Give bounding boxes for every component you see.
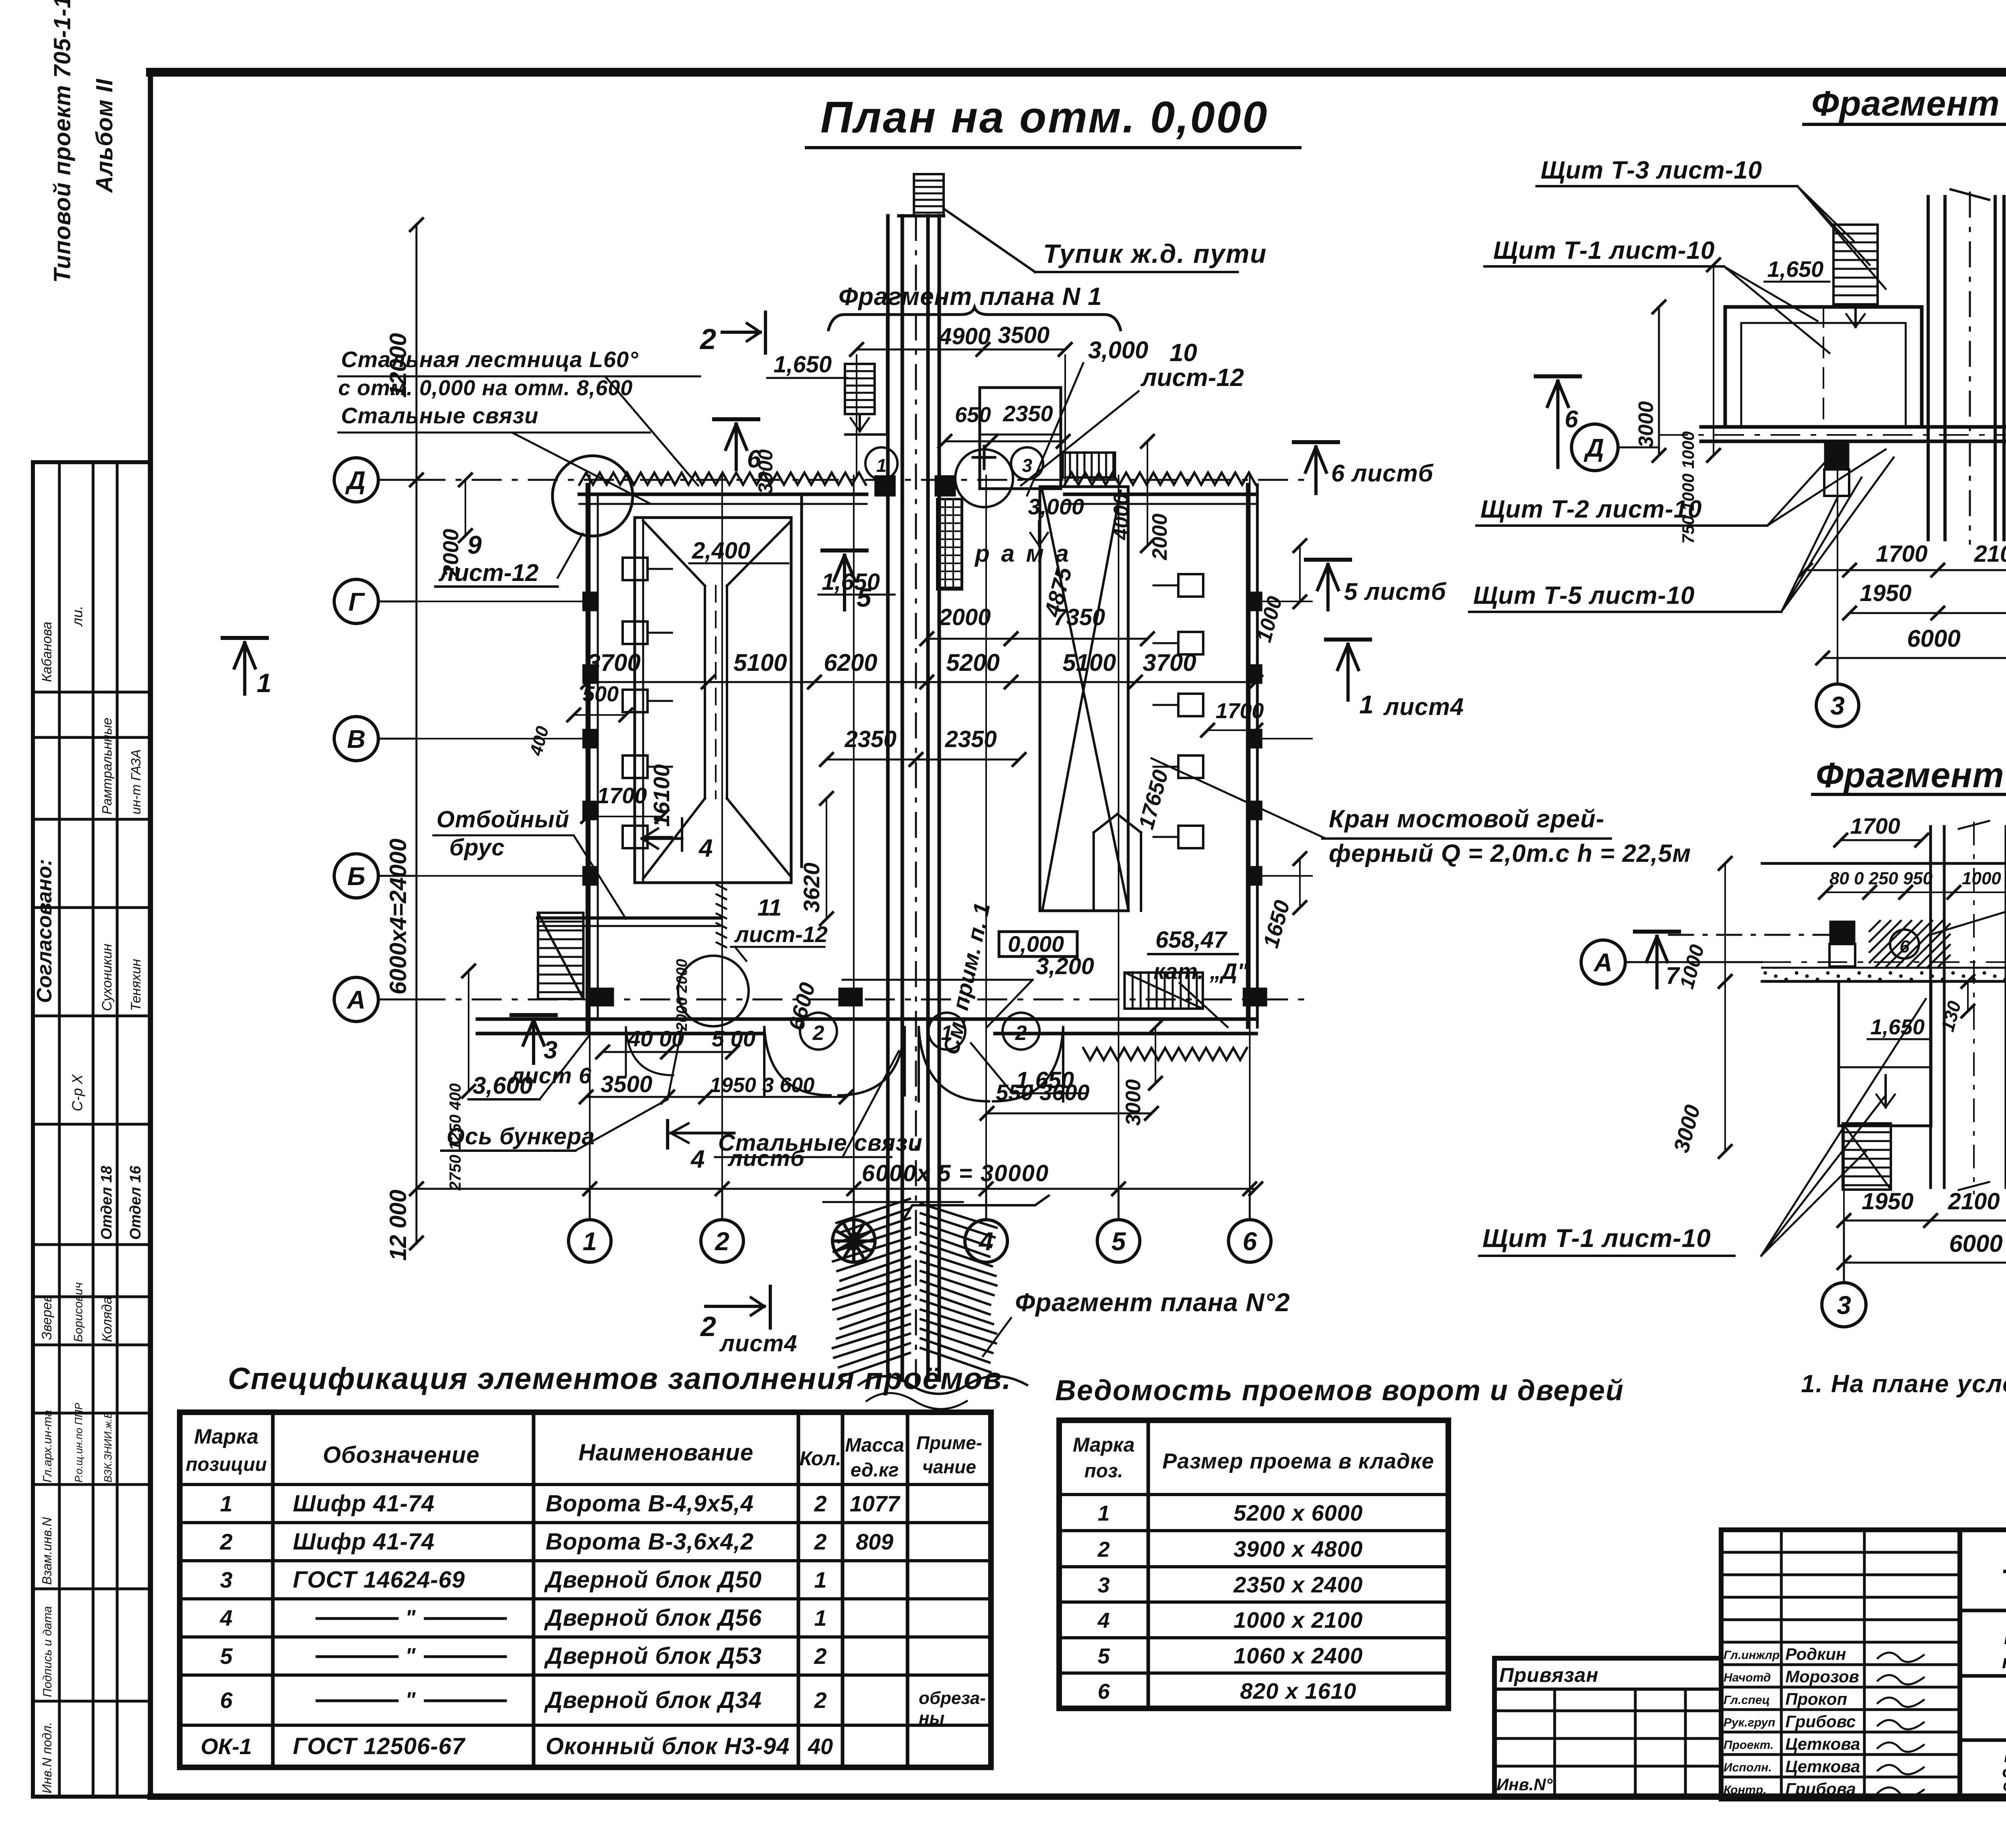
svg-text:2100: 2100 <box>1974 541 2006 567</box>
svg-text:Ворота В-4,9х5,4: Ворота В-4,9х5,4 <box>546 1491 754 1517</box>
svg-text:6000х 5 = 30000: 6000х 5 = 30000 <box>862 1160 1049 1186</box>
svg-text:Спецификация элементов запол: Спецификация элементов заполнения проёмо… <box>228 1362 1012 1396</box>
svg-text:А: А <box>346 985 365 1014</box>
svg-text:1. На плане условно показаны: 1. На плане условно показаны переносные … <box>1801 1370 2006 1398</box>
svg-text:Тупик ж.д. пути: Тупик ж.д. пути <box>1043 239 1267 268</box>
svg-text:Отдел 16: Отдел 16 <box>127 1166 144 1240</box>
svg-text:брус: брус <box>449 835 505 861</box>
svg-text:0,000: 0,000 <box>1008 931 1064 956</box>
svg-text:лист4: лист4 <box>1383 693 1464 720</box>
svg-text:Стальные связи: Стальные связи <box>341 403 539 428</box>
svg-text:2000: 2000 <box>938 604 991 630</box>
svg-text:400: 400 <box>526 724 553 758</box>
svg-text:3: 3 <box>1022 455 1032 476</box>
svg-text:ед.кг: ед.кг <box>851 1460 899 1481</box>
svg-text:Борисович: Борисович <box>72 1282 85 1342</box>
svg-text:6: 6 <box>1565 406 1578 433</box>
svg-text:Взам.инв.N: Взам.инв.N <box>40 1517 54 1585</box>
svg-text:3000: 3000 <box>1634 401 1658 448</box>
svg-text:План на отм. 0,000.: План на отм. 0,000. <box>2004 1745 2006 1766</box>
svg-text:2: 2 <box>814 1688 826 1713</box>
svg-text:2: 2 <box>814 1643 826 1669</box>
svg-text:лист-12: лист-12 <box>734 922 828 947</box>
svg-text:3,600: 3,600 <box>473 1072 533 1099</box>
svg-text:1000: 1000 <box>1962 869 2001 888</box>
svg-text:Щит Т-5 лист-10: Щит Т-5 лист-10 <box>1473 582 1695 609</box>
svg-text:4: 4 <box>698 835 713 862</box>
svg-text:Инв.N°: Инв.N° <box>1496 1775 1553 1794</box>
svg-text:3500: 3500 <box>998 322 1050 348</box>
svg-text:750 1000 1000: 750 1000 1000 <box>1679 431 1697 544</box>
svg-text:6200: 6200 <box>824 649 877 676</box>
svg-text:130: 130 <box>1937 999 1965 1034</box>
svg-text:Щит Т-3 лист-10: Щит Т-3 лист-10 <box>1541 156 1762 184</box>
svg-text:2: 2 <box>1015 1021 1027 1045</box>
svg-text:ферный Q = 2,0т.с h = 22,5м: ферный Q = 2,0т.с h = 22,5м <box>1329 840 1691 867</box>
svg-text:6: 6 <box>1098 1679 1110 1704</box>
svg-text:Кол.: Кол. <box>800 1447 841 1470</box>
svg-text:3000: 3000 <box>1122 1079 1145 1126</box>
svg-text:5200: 5200 <box>946 649 999 676</box>
svg-text:ин-т ГАЗА: ин-т ГАЗА <box>128 749 143 814</box>
svg-text:ГОСТ 12506-67: ГОСТ 12506-67 <box>293 1733 466 1759</box>
svg-text:С-р X: С-р X <box>69 1074 85 1111</box>
svg-text:1950: 1950 <box>1860 580 1911 606</box>
svg-text:2: 2 <box>814 1491 826 1516</box>
svg-text:3: 3 <box>847 1227 861 1256</box>
svg-text:17650: 17650 <box>1134 768 1173 832</box>
svg-text:Ось бункера: Ось бункера <box>447 1123 595 1149</box>
svg-text:Р.о.щ.ин.по ППР: Р.о.щ.ин.по ППР <box>73 1403 85 1482</box>
svg-text:Грибова: Грибова <box>1785 1779 1856 1798</box>
svg-text:2100: 2100 <box>1947 1188 2000 1214</box>
svg-text:Гл.инжлр: Гл.инжлр <box>1724 1649 1780 1662</box>
svg-text:500: 500 <box>583 682 619 706</box>
svg-text:2750 1250 400: 2750 1250 400 <box>447 1083 464 1191</box>
svg-text:1: 1 <box>1098 1501 1110 1525</box>
svg-text:ковой муки ёмкостью 2тыс.т.: ковой муки ёмкостью 2тыс.т. <box>2002 1651 2006 1672</box>
svg-text:3,000: 3,000 <box>1028 494 1084 519</box>
svg-text:2: 2 <box>219 1529 232 1554</box>
svg-text:Сухоникин: Сухоникин <box>99 944 115 1011</box>
svg-text:5100: 5100 <box>733 649 787 676</box>
svg-text:А: А <box>1593 948 1612 977</box>
svg-text:4: 4 <box>219 1605 232 1631</box>
svg-text:Щит Т-1 лист-10: Щит Т-1 лист-10 <box>1493 237 1715 264</box>
svg-text:7350: 7350 <box>1053 604 1105 630</box>
svg-text:поз.: поз. <box>1084 1460 1123 1482</box>
svg-text:1: 1 <box>814 1567 826 1592</box>
svg-text:3: 3 <box>220 1567 232 1592</box>
svg-text:5: 5 <box>1098 1644 1110 1668</box>
svg-text:1: 1 <box>814 1605 826 1631</box>
svg-text:2: 2 <box>715 1227 729 1256</box>
svg-text:с отм. 0,000 на отм. 8,600: с отм. 0,000 на отм. 8,600 <box>338 376 633 400</box>
svg-text:1950: 1950 <box>1862 1188 1913 1214</box>
svg-text:Типовой проект 705-1-148: Типовой проект 705-1-148 <box>49 0 75 283</box>
svg-text:Прирельсовый закрытый склад сл: Прирельсовый закрытый склад слабопылящей… <box>2004 1627 2006 1648</box>
svg-text:Фрагмент плана N°2: Фрагмент плана N°2 <box>1015 1288 1290 1317</box>
svg-text:2,400: 2,400 <box>692 538 750 564</box>
svg-text:5: 5 <box>1111 1227 1126 1256</box>
svg-text:Обозначение: Обозначение <box>323 1442 480 1468</box>
svg-text:ли.: ли. <box>69 606 85 627</box>
svg-text:Отбойный: Отбойный <box>437 806 569 833</box>
svg-text:2350: 2350 <box>944 726 997 752</box>
svg-text:": " <box>405 1688 416 1712</box>
svg-text:1,650: 1,650 <box>822 569 880 595</box>
svg-text:5200 х 6000: 5200 х 6000 <box>1234 1500 1363 1525</box>
svg-text:6: 6 <box>220 1688 233 1713</box>
svg-text:Стальная лестница L60°: Стальная лестница L60° <box>341 347 639 372</box>
svg-text:3: 3 <box>1830 691 1845 720</box>
svg-text:6 листб: 6 листб <box>1331 460 1434 487</box>
svg-text:40: 40 <box>808 1734 833 1759</box>
svg-text:650: 650 <box>955 403 991 427</box>
svg-text:1700: 1700 <box>597 783 647 808</box>
svg-text:3: 3 <box>1098 1573 1110 1597</box>
svg-text:Согласовано:: Согласовано: <box>33 859 56 1003</box>
svg-text:658,47: 658,47 <box>1155 927 1228 953</box>
svg-text:2: 2 <box>1097 1537 1110 1562</box>
svg-text:1000 х 2100: 1000 х 2100 <box>1234 1607 1363 1633</box>
svg-text:позиции: позиции <box>186 1454 267 1475</box>
svg-text:3,000: 3,000 <box>1088 337 1148 364</box>
svg-text:Дверной блок Д34: Дверной блок Д34 <box>544 1687 762 1713</box>
svg-text:1: 1 <box>941 1021 953 1045</box>
svg-text:Альбом II: Альбом II <box>91 78 118 193</box>
svg-text:Г: Г <box>348 587 365 616</box>
svg-text:12 000: 12 000 <box>385 1190 411 1261</box>
svg-text:Фрагмент плана N 1: Фрагмент плана N 1 <box>839 283 1102 311</box>
svg-text:Контр.: Контр. <box>1724 1783 1766 1797</box>
svg-text:Приме-: Приме- <box>916 1432 982 1453</box>
svg-text:ВЗК.ЗНИИ.ж.Б: ВЗК.ЗНИИ.ж.Б <box>102 1411 114 1482</box>
svg-text:4: 4 <box>978 1227 993 1256</box>
svg-text:1: 1 <box>876 455 887 476</box>
svg-text:2350: 2350 <box>1003 401 1053 426</box>
svg-text:Б: Б <box>347 862 365 891</box>
svg-text:Начотд: Начотд <box>1724 1671 1771 1684</box>
svg-text:6000х4=24000: 6000х4=24000 <box>385 839 411 995</box>
svg-text:В: В <box>347 725 365 753</box>
svg-text:3900 х 4800: 3900 х 4800 <box>1234 1536 1363 1562</box>
svg-text:Шифр 41-74: Шифр 41-74 <box>293 1491 434 1517</box>
svg-text:2350: 2350 <box>844 726 896 752</box>
svg-text:Морозов: Морозов <box>1785 1667 1859 1686</box>
svg-text:3000: 3000 <box>1669 1103 1705 1156</box>
svg-text:Привязан: Привязан <box>1499 1664 1599 1686</box>
svg-text:3620: 3620 <box>799 863 824 913</box>
svg-text:Коляда: Коляда <box>99 1297 115 1342</box>
svg-text:Подпись и дата: Подпись и дата <box>41 1606 54 1697</box>
svg-text:ОК-1: ОК-1 <box>201 1734 252 1759</box>
svg-text:11: 11 <box>757 895 782 921</box>
svg-text:2: 2 <box>699 323 716 355</box>
svg-text:Гл.арх.ин-та: Гл.арх.ин-та <box>41 1410 54 1482</box>
svg-text:5: 5 <box>220 1643 233 1669</box>
svg-text:1700: 1700 <box>1876 541 1927 567</box>
svg-text:3,200: 3,200 <box>1036 953 1094 979</box>
svg-text:6: 6 <box>1243 1227 1257 1256</box>
svg-text:3000: 3000 <box>754 449 777 494</box>
svg-text:4: 4 <box>690 1145 705 1173</box>
svg-text:1: 1 <box>257 668 272 698</box>
svg-text:Стальные связи: Стальные связи <box>718 1130 923 1156</box>
svg-text:Щит Т-1 лист-10: Щит Т-1 лист-10 <box>1482 1224 1711 1253</box>
svg-text:1,650: 1,650 <box>774 351 832 378</box>
svg-text:Гл.спец: Гл.спец <box>1724 1694 1770 1707</box>
svg-text:Д: Д <box>1584 433 1604 462</box>
svg-text:1000: 1000 <box>1675 942 1709 991</box>
svg-text:2000 2000: 2000 2000 <box>674 959 690 1032</box>
svg-text:6000: 6000 <box>1907 625 1960 652</box>
svg-text:Марка: Марка <box>1073 1434 1135 1456</box>
svg-text:3 600: 3 600 <box>762 1074 814 1097</box>
svg-text:Грибовс: Грибовс <box>1785 1712 1856 1731</box>
svg-text:Щит Т-2 лист-10: Щит Т-2 лист-10 <box>1480 496 1702 523</box>
svg-text:809: 809 <box>856 1529 893 1554</box>
svg-text:ГОСТ 14624-69: ГОСТ 14624-69 <box>293 1567 465 1593</box>
svg-text:": " <box>405 1644 416 1668</box>
svg-text:Цеткова: Цеткова <box>1785 1734 1860 1753</box>
svg-text:Фрагмент плана N°1: Фрагмент плана N°1 <box>1811 83 2006 123</box>
svg-text:3: 3 <box>1837 1291 1851 1320</box>
svg-text:ны: ны <box>919 1708 944 1728</box>
svg-text:80 0 250 950: 80 0 250 950 <box>1829 869 1933 888</box>
svg-text:Рук.груп: Рук.груп <box>1724 1716 1775 1729</box>
svg-text:лист4: лист4 <box>719 1330 798 1357</box>
svg-text:Д: Д <box>345 466 365 495</box>
svg-text:1: 1 <box>220 1491 232 1516</box>
svg-text:Рамтральнные: Рамтральнные <box>99 718 114 814</box>
svg-text:Кабанова: Кабанова <box>39 621 55 682</box>
svg-text:Марка: Марка <box>194 1425 259 1448</box>
svg-text:Размер проема в кладке: Размер проема в кладке <box>1162 1449 1434 1473</box>
svg-text:2000: 2000 <box>1148 514 1172 560</box>
svg-text:Родкин: Родкин <box>1785 1645 1846 1663</box>
svg-text:1: 1 <box>1359 690 1374 719</box>
svg-text:Ворота В-3,6х4,2: Ворота В-3,6х4,2 <box>546 1529 754 1555</box>
svg-text:3: 3 <box>544 1036 557 1064</box>
svg-text:1: 1 <box>583 1227 597 1256</box>
svg-text:Проект.: Проект. <box>1724 1738 1774 1752</box>
svg-text:Теняхин: Теняхин <box>128 959 144 1011</box>
svg-text:6000: 6000 <box>1949 1230 2002 1257</box>
svg-text:Дверной блок Д56: Дверной блок Д56 <box>544 1605 762 1631</box>
svg-text:ТП 705-1-148: ТП 705-1-148 <box>2003 1564 2006 1598</box>
svg-text:2: 2 <box>700 1311 716 1342</box>
svg-text:1700: 1700 <box>1850 813 1900 839</box>
svg-text:Кран мостовой грей-: Кран мостовой грей- <box>1329 805 1604 833</box>
svg-text:3700: 3700 <box>587 649 640 676</box>
svg-text:План на отм. 0,000: План на отм. 0,000 <box>820 93 1269 142</box>
svg-text:1950: 1950 <box>710 1074 756 1097</box>
svg-text:Наименование: Наименование <box>579 1440 753 1466</box>
svg-text:2: 2 <box>814 1529 826 1554</box>
svg-text:1650: 1650 <box>1259 898 1295 951</box>
svg-text:1700: 1700 <box>1216 699 1264 723</box>
svg-text:1,650: 1,650 <box>1767 256 1823 282</box>
svg-text:820 х 1610: 820 х 1610 <box>1240 1678 1356 1704</box>
svg-text:4: 4 <box>1097 1608 1110 1633</box>
svg-text:Прокоп: Прокоп <box>1785 1690 1847 1708</box>
svg-text:лист-12: лист-12 <box>1140 364 1244 392</box>
svg-text:2000: 2000 <box>439 529 463 577</box>
svg-text:Дверной блок Д53: Дверной блок Д53 <box>544 1643 762 1669</box>
svg-text:4900: 4900 <box>938 323 991 349</box>
svg-text:7: 7 <box>1666 962 1680 989</box>
svg-text:5 листб: 5 листб <box>1344 578 1447 605</box>
svg-text:": " <box>405 1606 416 1630</box>
svg-text:2: 2 <box>812 1021 824 1045</box>
svg-text:3500: 3500 <box>601 1071 652 1097</box>
svg-text:Ведомость проемов ворот и две: Ведомость проемов ворот и дверей <box>1055 1375 1624 1407</box>
svg-text:Шифр 41-74: Шифр 41-74 <box>293 1529 434 1555</box>
svg-text:1077: 1077 <box>850 1491 901 1516</box>
svg-text:1060 х 2400: 1060 х 2400 <box>1234 1643 1363 1668</box>
svg-text:Зверев: Зверев <box>39 1295 55 1340</box>
svg-text:Исполн.: Исполн. <box>1724 1761 1772 1774</box>
svg-text:9: 9 <box>467 530 482 559</box>
svg-text:10: 10 <box>1169 339 1197 367</box>
svg-text:Цеткова: Цеткова <box>1785 1757 1860 1776</box>
svg-text:1,650: 1,650 <box>1870 1015 1925 1039</box>
svg-text:Оконный блок Н3-94: Оконный блок Н3-94 <box>546 1733 790 1759</box>
svg-text:чание: чание <box>922 1456 976 1477</box>
svg-text:1,650: 1,650 <box>1016 1067 1074 1093</box>
svg-text:кат. „Д": кат. „Д" <box>1153 959 1249 984</box>
svg-text:Спецификация элементов запол: Спецификация элементов запол <box>2003 1779 2006 1794</box>
svg-text:5 00: 5 00 <box>712 1026 755 1051</box>
svg-text:Дверной блок Д50: Дверной блок Д50 <box>544 1567 762 1593</box>
svg-text:2350 х 2400: 2350 х 2400 <box>1233 1572 1363 1597</box>
svg-text:обреза-: обреза- <box>919 1688 986 1708</box>
svg-text:6: 6 <box>1900 937 1910 956</box>
svg-text:Инв.N подл.: Инв.N подл. <box>40 1722 54 1793</box>
svg-text:Отдел 18: Отдел 18 <box>98 1166 115 1240</box>
svg-text:Масса: Масса <box>845 1435 904 1456</box>
svg-text:Фрагмент плана N°2: Фрагмент плана N°2 <box>1816 755 2006 795</box>
